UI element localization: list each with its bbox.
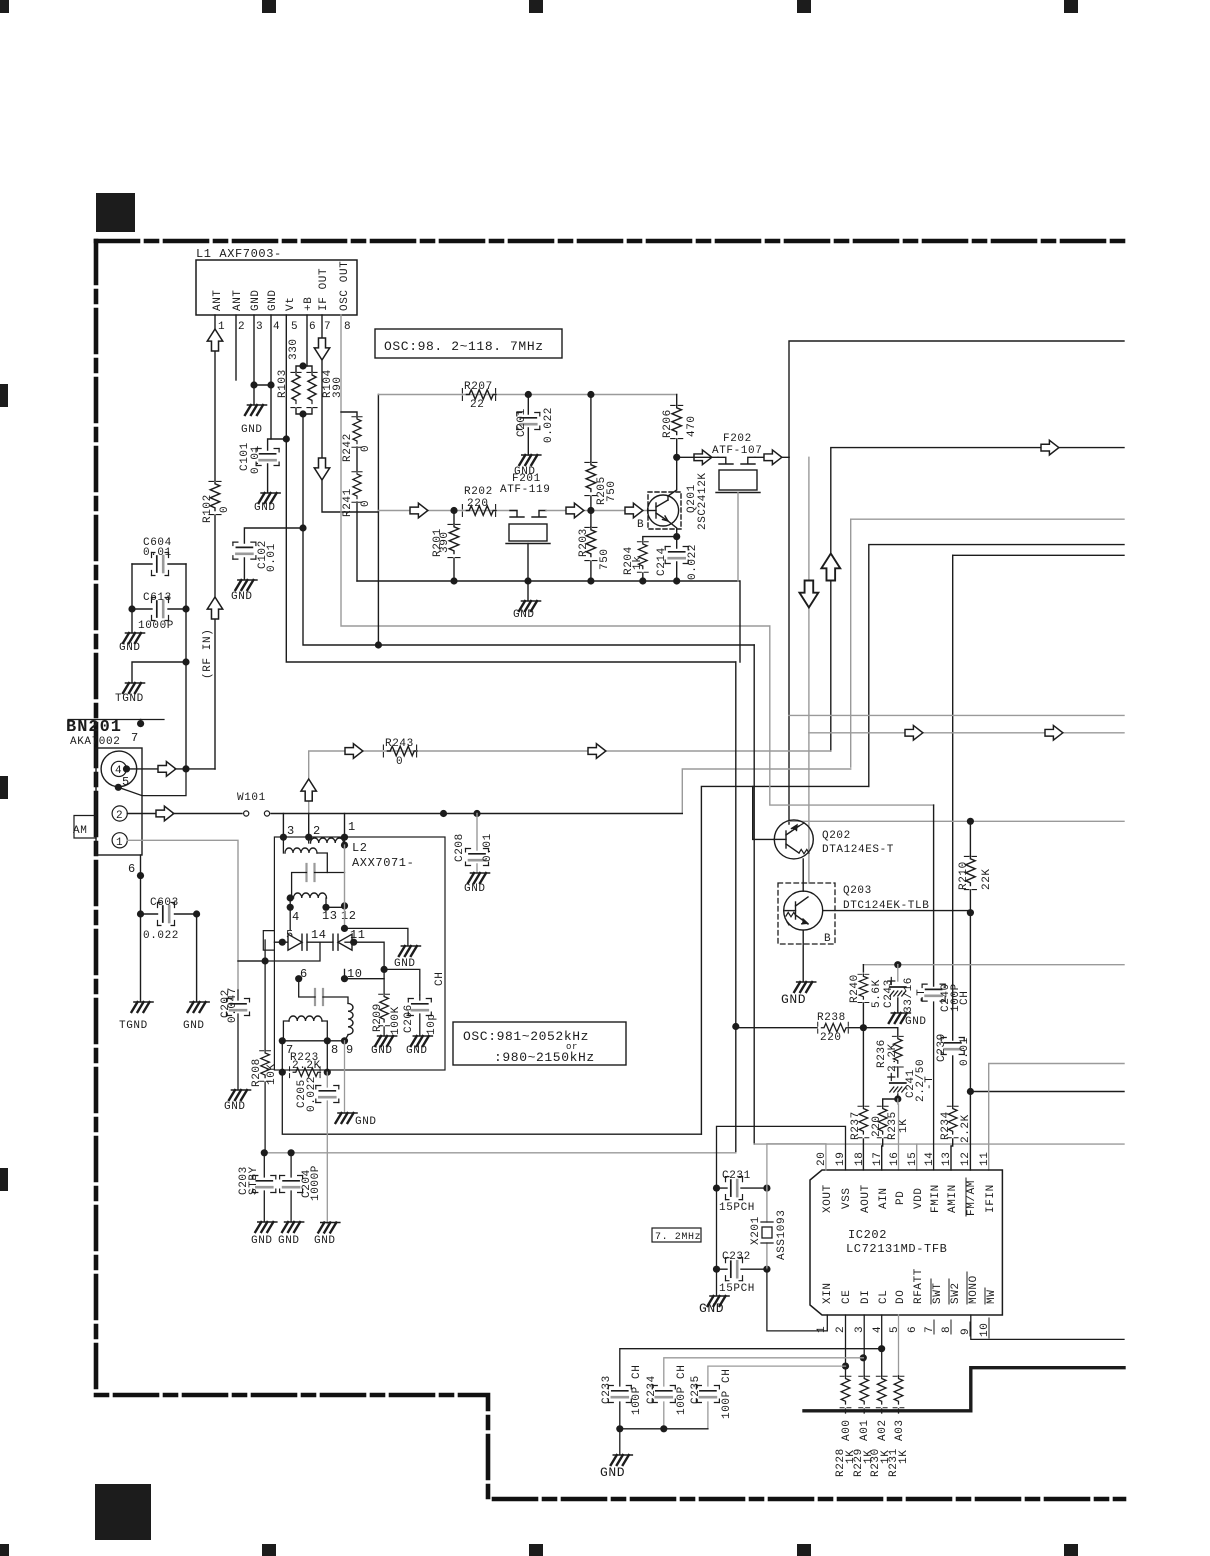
svg-text:0.01: 0.01 (482, 833, 494, 862)
svg-text:GND: GND (464, 883, 486, 895)
wire pin4 to RF (126, 768, 157, 770)
svg-text:AOUT: AOUT (860, 1184, 872, 1213)
svg-text:12: 12 (341, 909, 357, 923)
svg-text:330: 330 (288, 338, 300, 360)
pin 2 circle (112, 806, 127, 821)
svg-text:FMIN: FMIN (930, 1184, 942, 1213)
svg-text:C201: C201 (516, 408, 528, 437)
svg-text:6: 6 (309, 321, 316, 333)
svg-text:17: 17 (872, 1152, 884, 1166)
wire Q202 feed down (788, 457, 790, 824)
svg-text:GND: GND (905, 1016, 927, 1028)
svg-text:C613: C613 (143, 592, 172, 604)
resistor R236 (863, 1028, 897, 1035)
svg-text:6: 6 (300, 967, 308, 981)
bottom pin names rotated (822, 1268, 998, 1304)
svg-text:CL: CL (878, 1290, 890, 1304)
resistor R229 (859, 1376, 870, 1408)
VSS tie to crystal caps (717, 1126, 846, 1295)
svg-text:3: 3 (287, 824, 295, 838)
svg-text:C208: C208 (454, 833, 466, 862)
svg-text:100K: 100K (390, 1006, 402, 1035)
ground C613 (131, 609, 133, 632)
corner block bottom-left (95, 1484, 151, 1540)
svg-text:GND: GND (394, 958, 416, 970)
svg-text:470: 470 (686, 415, 698, 437)
L1 pin numbers (218, 321, 351, 333)
cap internal top (307, 864, 315, 881)
pin 3 entry (282, 814, 284, 838)
wire pin1 ANT down (214, 315, 216, 480)
thick bus (804, 1368, 1124, 1411)
svg-text:FM/AM: FM/AM (966, 1180, 978, 1216)
page border dash-dot (96, 241, 1124, 1499)
svg-text:PD: PD (895, 1191, 907, 1205)
wire pin4 GND (270, 315, 272, 439)
AM tab (74, 816, 96, 839)
svg-text:GND: GND (371, 1045, 393, 1057)
XOUT loop (767, 1144, 826, 1188)
ceramic filter F201 ATF-119 (506, 511, 550, 581)
svg-text:2.2K: 2.2K (292, 1060, 321, 1072)
TGND branch (132, 662, 186, 682)
ground F201 (519, 601, 541, 611)
top pin numbers rotated (816, 1152, 991, 1166)
svg-text:GND: GND (241, 424, 263, 436)
svg-text:C232: C232 (722, 1251, 751, 1263)
svg-text:ATF-107: ATF-107 (712, 445, 762, 457)
svg-text:22K: 22K (981, 868, 993, 890)
capacitor C235 (708, 1366, 846, 1429)
pin 2 entry (308, 814, 310, 838)
resistor R201 (453, 511, 455, 525)
svg-text:8: 8 (344, 321, 351, 333)
node IF rail corner (377, 395, 379, 646)
svg-text:13: 13 (941, 1152, 953, 1166)
svg-text:CH: CH (434, 972, 446, 986)
svg-text:C239: C239 (936, 1033, 948, 1062)
electrolytic C243 (897, 965, 899, 981)
svg-text:OSC OUT: OSC OUT (339, 261, 351, 311)
svg-text:0: 0 (360, 500, 372, 507)
varactor centre to pin14 (238, 942, 320, 961)
svg-text:100P CH: 100P CH (631, 1365, 643, 1415)
capacitor C604 (132, 563, 186, 565)
svg-text:3: 3 (256, 321, 263, 333)
svg-text:GND: GND (278, 1235, 300, 1247)
svg-text:(RF IN): (RF IN) (202, 629, 214, 679)
wire Q202 emitter run (789, 820, 1124, 822)
internal cap 2 (315, 989, 323, 1005)
resistor R235 (883, 1099, 898, 1106)
svg-text:C231: C231 (722, 1170, 751, 1182)
wire pin5 col to R208 (264, 961, 266, 1050)
svg-text:R243: R243 (385, 738, 414, 750)
svg-text:C234: C234 (646, 1375, 658, 1404)
svg-text:IC202: IC202 (848, 1228, 887, 1242)
IC202 LC72131MD-TFB body (810, 1170, 1002, 1315)
svg-text:R237: R237 (850, 1111, 862, 1140)
svg-text:AM: AM (73, 825, 87, 837)
svg-text:0.022: 0.022 (143, 930, 179, 942)
svg-text:0.022: 0.022 (306, 1076, 318, 1112)
capacitor C206 (419, 995, 421, 1035)
pin 1 circle (112, 833, 127, 848)
resistor R230 (876, 1376, 887, 1408)
svg-text:AMIN: AMIN (947, 1184, 959, 1213)
svg-text:L1 AXF7003-: L1 AXF7003- (196, 247, 282, 261)
svg-text:AKA7002: AKA7002 (70, 736, 120, 748)
capacitor C101 (268, 439, 287, 492)
svg-text:VDD: VDD (913, 1187, 925, 1209)
svg-text:R206: R206 (662, 409, 674, 438)
pin12 riser (344, 845, 346, 928)
svg-text:W101: W101 (237, 792, 266, 804)
label box OSC:98.2~118.7MHz (375, 329, 562, 358)
wire pin3 GND (253, 315, 255, 385)
wire pin6 +B down to R103/R104 top (306, 315, 308, 366)
ground C102 (235, 580, 257, 590)
svg-text:1: 1 (218, 321, 225, 333)
svg-text::980~2150kHz: :980~2150kHz (494, 1050, 595, 1065)
capacitor C201 (527, 395, 529, 456)
wire pin1 to C202 (127, 840, 238, 990)
svg-text:RFATT: RFATT (913, 1268, 925, 1304)
resistor R104 (303, 366, 312, 414)
svg-text:DO: DO (895, 1290, 907, 1304)
registration mark bottom row (0, 1544, 1078, 1556)
svg-text:Q202: Q202 (822, 830, 851, 842)
wire Vt riser down (735, 662, 737, 1152)
transistor Q201 2SC2412K (648, 492, 681, 529)
bottom pin numbers rotated (816, 1323, 991, 1337)
wire pin2 ANT stub (235, 315, 237, 380)
svg-text:GND: GND (254, 502, 276, 514)
svg-text:MW: MW (986, 1290, 998, 1304)
svg-text:R234: R234 (940, 1111, 952, 1140)
svg-text:XOUT: XOUT (822, 1184, 834, 1213)
svg-text:AXX7071-: AXX7071- (352, 856, 414, 870)
vertical coil (348, 1003, 353, 1034)
svg-text:F202: F202 (723, 433, 752, 445)
svg-text:GND: GND (267, 289, 279, 311)
pin 5 tab (263, 931, 274, 951)
svg-text:B: B (824, 933, 831, 945)
svg-text:C206: C206 (403, 1004, 415, 1033)
arrow into F202 (694, 450, 712, 465)
wire Q202 base stub (753, 786, 774, 839)
svg-text:R208: R208 (251, 1058, 263, 1087)
svg-text:C233: C233 (601, 1375, 613, 1404)
wire osc buffer run (831, 448, 1124, 751)
pin 6 stub (140, 855, 142, 914)
svg-text:A03: A03 (894, 1419, 906, 1441)
svg-text:IFIN: IFIN (985, 1184, 997, 1213)
pin 5 node (115, 784, 122, 791)
svg-text:4: 4 (292, 910, 300, 924)
pin10 MW run (971, 1315, 1124, 1339)
wire R243 osc line (309, 751, 831, 814)
svg-text:C243: C243 (883, 979, 895, 1008)
ground pins3-4 (245, 405, 267, 415)
capacitor C204 (290, 1153, 292, 1221)
svg-text:750: 750 (606, 480, 618, 502)
Q203 emitter to gnd (802, 930, 804, 981)
svg-text:ANT: ANT (232, 289, 244, 311)
svg-text:AIN: AIN (878, 1187, 890, 1209)
wire pin5 ground path (118, 769, 186, 796)
L2 block outline (274, 837, 445, 1070)
wire pin12 to gnd (345, 928, 408, 945)
resistor R228 (840, 1376, 851, 1408)
svg-text:TGND: TGND (115, 693, 144, 705)
svg-text:7: 7 (131, 731, 139, 745)
capacitor C102 branch (244, 528, 303, 579)
ground C201 (519, 455, 541, 465)
svg-text:100P CH: 100P CH (721, 1369, 733, 1419)
svg-text:DTA124ES-T: DTA124ES-T (822, 844, 894, 856)
pin9 col gnd (344, 1041, 346, 1112)
svg-text:14: 14 (924, 1152, 936, 1166)
svg-text:GND: GND (600, 1465, 625, 1480)
svg-text:A01: A01 (859, 1419, 871, 1441)
svg-text:6: 6 (128, 862, 136, 876)
svg-text:6: 6 (907, 1326, 919, 1333)
svg-text:8: 8 (331, 1043, 339, 1057)
svg-text:ASS1093: ASS1093 (776, 1210, 788, 1260)
svg-text:TGND: TGND (119, 1020, 148, 1032)
svg-text:100P CH: 100P CH (676, 1365, 688, 1415)
svg-text:CH: CH (959, 991, 971, 1005)
svg-text:SWT: SWT (932, 1282, 944, 1304)
corner block top-left (96, 193, 135, 232)
svg-text:1K: 1K (898, 1119, 910, 1133)
capacitor C232 (717, 1268, 767, 1270)
label box OSC:981~2052kHz (453, 1022, 626, 1065)
pin12 FM/AM stub to edge (970, 1091, 1124, 1093)
coax jack circle pin 4 (101, 751, 137, 787)
wire W101 to AM run riser (682, 769, 850, 813)
svg-text:A00: A00 (841, 1419, 853, 1441)
transistor Q203 DTC124EK-TLB (778, 883, 835, 944)
jumper W101 (173, 813, 682, 815)
registration mark top row (0, 0, 1078, 13)
svg-text:GND: GND (231, 591, 253, 603)
svg-text:16: 16 (889, 1152, 901, 1166)
svg-text:CE: CE (841, 1290, 853, 1304)
pin5 outside drop (264, 940, 266, 961)
svg-text:0.022: 0.022 (543, 407, 555, 443)
svg-text:5.6K: 5.6K (871, 979, 883, 1008)
pin3 DI column (863, 1315, 865, 1376)
svg-text:R103: R103 (277, 369, 289, 398)
capacitor C239 (941, 1038, 964, 1055)
wire pin11 down (354, 942, 384, 969)
resistor R238 (818, 1022, 849, 1033)
svg-text:GND: GND (251, 1235, 273, 1247)
top pin names rotated (822, 1180, 997, 1216)
wire AMIN run (953, 554, 1124, 556)
ground C101 (259, 493, 281, 503)
capacitor C233 (620, 1349, 882, 1429)
capacitor C613 (132, 564, 186, 609)
arrow down IF OUT upper (314, 338, 329, 360)
coil T2 (285, 848, 317, 853)
svg-text:R209: R209 (372, 1003, 384, 1032)
svg-text:10p: 10p (426, 1013, 438, 1035)
svg-text:XIN: XIN (822, 1282, 834, 1304)
svg-text:0.022: 0.022 (687, 544, 699, 580)
svg-text:11: 11 (979, 1152, 991, 1166)
mid FM signal row (378, 510, 517, 512)
wire osc-out to FMIN riser (770, 626, 934, 805)
crystal X201 ASS1093 (766, 1188, 768, 1269)
wire R241 to rail (352, 471, 362, 502)
XIN loop (767, 1269, 827, 1331)
pins 6/10 row (295, 975, 302, 982)
svg-text:BN201: BN201 (66, 718, 122, 737)
coil T1 top (311, 838, 344, 843)
transistor Q202 DTA124ES-T (774, 820, 813, 859)
svg-text:4: 4 (273, 321, 280, 333)
svg-text:750: 750 (599, 548, 611, 570)
resistor R242 (341, 412, 357, 417)
gnd tie pins 3-4 (254, 384, 271, 386)
resistor R243 (383, 745, 417, 757)
svg-text:1: 1 (116, 837, 123, 849)
svg-text:GND: GND (314, 1235, 336, 1247)
svg-text:R203: R203 (578, 528, 590, 557)
wire C603 right to GND (196, 914, 198, 1001)
capacitor C214 (676, 537, 678, 581)
svg-text:11: 11 (350, 928, 366, 942)
coil bottom (289, 1016, 322, 1021)
svg-text:5: 5 (889, 1326, 901, 1333)
resistor R210 (969, 821, 971, 856)
resistor R223 (282, 1041, 327, 1072)
pin 7 stub (140, 720, 142, 725)
svg-text:0.01: 0.01 (266, 543, 278, 572)
svg-text:L2: L2 (352, 841, 368, 855)
svg-text:0.01: 0.01 (959, 1037, 971, 1066)
wire F202 in stub (677, 456, 718, 458)
svg-text:OSC:98. 2~118. 7MHz: OSC:98. 2~118. 7MHz (384, 339, 544, 354)
svg-text:ATF-119: ATF-119 (500, 484, 550, 496)
wire AM ant run (851, 519, 1124, 767)
svg-text:Q203: Q203 (843, 885, 872, 897)
svg-text:GND: GND (513, 609, 535, 621)
svg-text:15PCH: 15PCH (719, 1202, 755, 1214)
svg-text:IF OUT: IF OUT (318, 268, 330, 311)
label box 7.2MHz (652, 1228, 701, 1242)
ground F201 stub (527, 581, 529, 600)
svg-text:15: 15 (907, 1152, 919, 1166)
wire Q203 base stub (808, 733, 810, 883)
wire pin7 IF OUT down (322, 315, 378, 512)
svg-text:7: 7 (324, 321, 331, 333)
svg-text:13: 13 (322, 909, 338, 923)
svg-text:220: 220 (820, 1032, 842, 1044)
resistor R206 (676, 395, 678, 406)
resistor R237 (862, 1028, 864, 1106)
svg-text:0: 0 (360, 445, 372, 452)
svg-text:MONO: MONO (968, 1275, 980, 1304)
svg-text:390: 390 (439, 531, 451, 553)
svg-text:0.01: 0.01 (250, 445, 262, 474)
svg-text:B: B (637, 519, 644, 531)
svg-text:GND: GND (406, 1045, 428, 1057)
svg-text:1K: 1K (898, 1450, 910, 1464)
L1 pin names (212, 261, 351, 311)
svg-text:2.2K: 2.2K (960, 1114, 972, 1143)
Q203 collector to R210 (823, 910, 971, 912)
svg-text:1: 1 (816, 1326, 828, 1333)
svg-text:SW2: SW2 (950, 1282, 962, 1304)
node C101 tap (283, 435, 290, 442)
resistor R241 (356, 447, 358, 471)
resistor R203 (590, 511, 592, 528)
capacitor C202 (238, 961, 265, 1089)
svg-text:2: 2 (116, 810, 123, 822)
svg-text:15PCH: 15PCH (719, 1283, 755, 1295)
svg-text:0.047: 0.047 (227, 987, 239, 1023)
wire IF out run to edge (789, 341, 1124, 457)
arrow up on ANT lead (207, 329, 222, 351)
svg-text:0: 0 (219, 506, 231, 513)
svg-text:7. 2MHz: 7. 2MHz (655, 1232, 701, 1243)
wire pin6 to TGND (140, 914, 142, 1001)
svg-text:220: 220 (871, 1115, 883, 1137)
svg-text:GND: GND (183, 1020, 205, 1032)
wire L2 pin7 riser (701, 786, 868, 1134)
emitter wire Q201 down (668, 521, 677, 537)
svg-text:DI: DI (860, 1290, 872, 1304)
varactor D2 (333, 934, 352, 950)
coil T3 (294, 893, 327, 898)
svg-text:R210: R210 (958, 861, 970, 890)
svg-text:+B: +B (303, 297, 315, 311)
cap common rail to gnd (620, 1428, 708, 1430)
resistor R202 (462, 505, 496, 517)
capacitor C203 (263, 1153, 265, 1221)
wire F202 detect run with arrows (809, 732, 1124, 734)
svg-text:R242: R242 (342, 433, 354, 462)
resistor R207 (462, 389, 496, 401)
wire pin2 AM out (127, 813, 155, 815)
ceramic filter F202 ATF-107 (716, 457, 760, 581)
svg-text:R238: R238 (817, 1012, 846, 1024)
resistor R204 (643, 537, 677, 540)
svg-text:GND: GND (119, 642, 141, 654)
C205 bottom gnd (318, 1223, 340, 1233)
resistor R234 (947, 1106, 958, 1138)
svg-text:1: 1 (348, 820, 356, 834)
svg-text:390: 390 (332, 376, 344, 398)
wire R103/4 bottom down, +B rail (303, 414, 754, 645)
varactor D1 (279, 939, 286, 946)
registration mark left column (0, 384, 8, 1191)
resistor R240 (862, 965, 864, 972)
svg-text:5: 5 (122, 775, 130, 789)
arrow up RF IN (207, 597, 222, 619)
svg-text:18: 18 (854, 1152, 866, 1166)
svg-text:2SC2412K: 2SC2412K (697, 472, 709, 530)
svg-text:R202: R202 (464, 486, 493, 498)
capacitor C231 (717, 1187, 767, 1189)
svg-text:22: 22 (470, 399, 484, 411)
wire gray run y715 (789, 714, 1124, 716)
svg-text:0: 0 (396, 756, 403, 768)
